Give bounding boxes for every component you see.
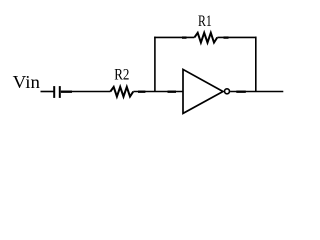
wire R2 to inverter input	[133, 91, 183, 93]
wire feedback top	[154, 36, 256, 38]
inverter U1	[183, 69, 230, 113]
wire output	[230, 91, 283, 93]
wire input lead	[41, 91, 54, 93]
wire capacitor to R2	[61, 91, 111, 93]
wire feedback left vertical	[154, 37, 156, 92]
resistor R1	[194, 33, 217, 43]
svg-text:R1: R1	[198, 13, 212, 30]
svg-text:R2: R2	[114, 67, 129, 84]
resistor R2	[110, 87, 133, 97]
svg-text:Vin: Vin	[13, 72, 40, 92]
capacitor	[54, 86, 60, 98]
wire feedback right vertical	[255, 37, 257, 92]
